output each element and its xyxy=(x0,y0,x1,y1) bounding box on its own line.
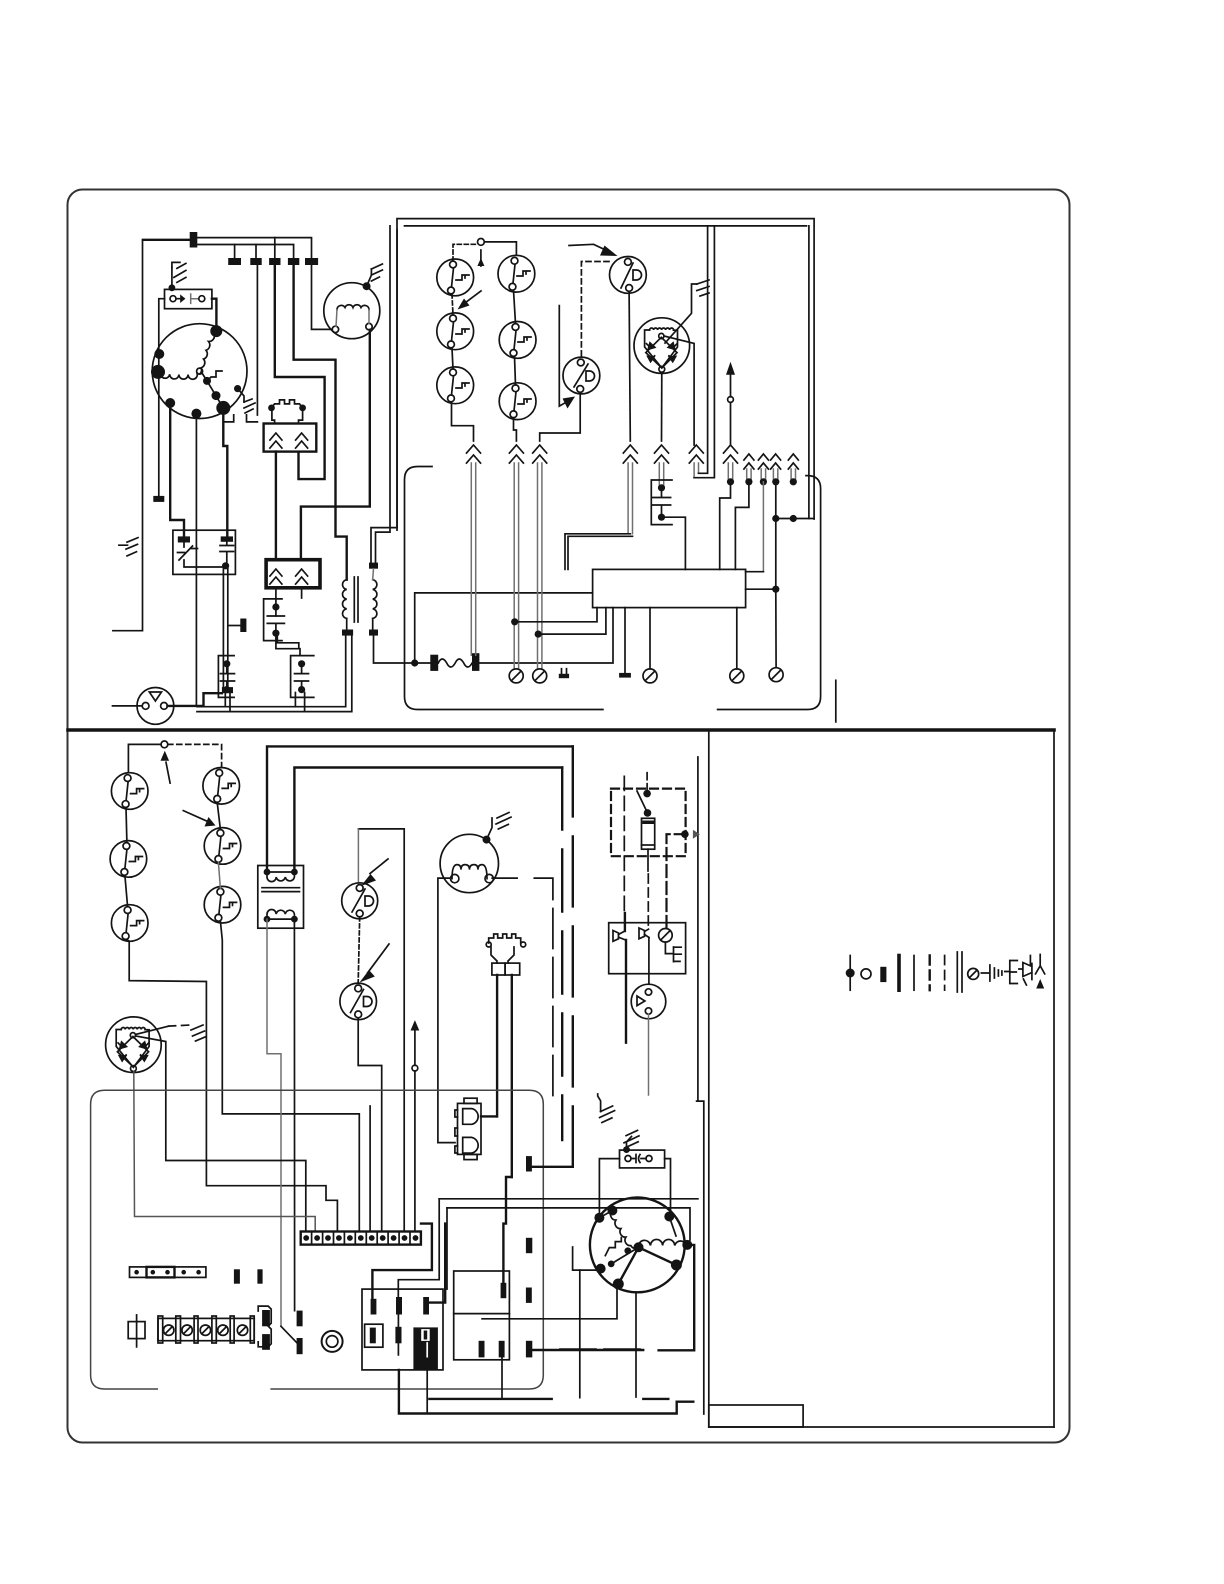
wire inducer loop xyxy=(659,1245,695,1350)
wire RBX2 out xyxy=(482,1288,617,1319)
K2 arrow out xyxy=(685,830,704,839)
screw terminal ST1 xyxy=(509,669,523,683)
FB1 inner link xyxy=(184,560,226,567)
M3 switch xyxy=(605,1238,621,1256)
limit switch LS8 xyxy=(110,841,147,878)
terminal bar TB13 xyxy=(257,1269,262,1283)
arrow up A1 xyxy=(477,258,484,268)
terminal bar TB15 xyxy=(297,1338,303,1354)
wire TB20 to dash bus xyxy=(532,1166,572,1168)
field chevron FC1 xyxy=(467,445,481,463)
outer enclosure border xyxy=(68,190,1070,1443)
relay box RBX2 xyxy=(454,1271,510,1360)
fuse FU2 xyxy=(128,1322,145,1339)
RBX2 divider xyxy=(454,1313,510,1315)
field chevron FC6 xyxy=(689,445,703,463)
compartment box line 2 xyxy=(447,1208,690,1240)
RBX1 black connector xyxy=(413,1327,438,1370)
bottom box right edge xyxy=(697,1101,704,1414)
legend break symbol xyxy=(1036,955,1045,974)
blower motor M2 body xyxy=(440,834,498,892)
C3 bottom dot xyxy=(223,686,230,693)
field chevron FC8 xyxy=(744,454,754,469)
bottom thick bus xyxy=(399,1370,693,1414)
limit switch LS2 xyxy=(437,313,474,350)
thermal link symbol xyxy=(272,400,303,408)
screw terminal ST4 xyxy=(730,669,744,683)
TR2 secondary winding xyxy=(267,909,294,919)
wire M1 lead C xyxy=(223,408,227,537)
RBX1 sub box xyxy=(365,1324,383,1347)
flame rollout plug FS1 xyxy=(137,688,174,725)
BR1 bar top xyxy=(262,1310,270,1326)
field chevron FC2 xyxy=(509,445,523,463)
C1 top dot xyxy=(272,603,279,610)
K2 switch blade xyxy=(637,791,648,813)
pressure switch PS2 xyxy=(563,357,600,394)
motor line right dash xyxy=(534,878,553,1100)
P2 square left xyxy=(492,963,505,975)
wire bus line 2 xyxy=(197,245,293,261)
compartment drop 2 xyxy=(446,1208,448,1289)
C1 plates xyxy=(267,616,284,623)
terminal bar TB19 xyxy=(501,1283,507,1298)
junction dot J2 xyxy=(222,562,229,569)
filter box FB1 xyxy=(173,530,236,574)
wire RBX1 bar2 stem xyxy=(397,1312,399,1355)
splice bar SP1 xyxy=(190,232,198,248)
wire HSI1 to chevron xyxy=(664,336,694,445)
bottom dash seg 1 xyxy=(429,1398,551,1400)
relay dashed box K2 xyxy=(611,789,686,857)
arrow diag A7 xyxy=(205,817,216,827)
M3 rim dots xyxy=(594,1213,604,1223)
wire fuse riser xyxy=(415,593,593,663)
M2 terminal right xyxy=(485,874,493,882)
bracket mark BRK2 xyxy=(247,415,258,422)
C1 lead top xyxy=(275,588,277,616)
M1 terminal dot bottom1 xyxy=(165,398,175,408)
M1 terminal dot bottom2 xyxy=(191,409,201,419)
transformer TR1 primary jog xyxy=(336,507,347,580)
rounded rect R2 xyxy=(91,1090,544,1389)
C1 lead bottom second xyxy=(277,635,299,648)
wire board stub 2 xyxy=(649,608,651,669)
C4 bottom dot xyxy=(658,514,665,521)
K1 ground xyxy=(665,942,681,962)
wire inner edge right xyxy=(808,226,810,519)
wire bus tap 2 xyxy=(255,245,257,261)
M1 terminal dot left1 xyxy=(154,349,164,359)
wire C2 bar drop left xyxy=(294,693,296,707)
big box outer corner xyxy=(267,746,573,872)
C3 plates xyxy=(221,664,235,690)
plug box PB1 xyxy=(264,424,317,452)
TR2 primary winding xyxy=(267,872,294,882)
legend panel bottom border xyxy=(709,1426,1054,1428)
K1 contact 1 xyxy=(613,931,619,942)
junction dot J1 xyxy=(169,284,176,291)
M1 winding aux xyxy=(160,373,197,379)
U-turn wire FC6 xyxy=(694,226,714,478)
C3 top dot xyxy=(223,660,230,667)
bracket BR1 xyxy=(258,1306,271,1347)
wire bus line 1 xyxy=(197,238,311,260)
TS1 dots xyxy=(303,1235,418,1241)
node circle N1 xyxy=(478,239,485,246)
door switch contact right xyxy=(199,296,205,302)
hsi circle HSI2 xyxy=(106,1017,162,1073)
wire LS1-LS2 link xyxy=(452,294,453,315)
K2 igniter lead dashed xyxy=(647,874,649,927)
U-turn wire FC6 inner xyxy=(699,226,708,473)
FB1 breaker symbol xyxy=(178,543,198,561)
capacitor C1 bracket xyxy=(264,599,282,641)
BR1 bar bottom xyxy=(262,1334,270,1350)
legend thick line xyxy=(897,956,901,991)
wire PS2 drop xyxy=(540,392,581,441)
PS3 arrow xyxy=(361,874,376,886)
arrow flame A3 xyxy=(600,246,618,257)
TR2 secondary dots xyxy=(264,916,271,923)
GND9 lead xyxy=(598,1094,601,1112)
wire GND2 lead xyxy=(171,267,173,287)
wire TB18 out xyxy=(532,1349,643,1351)
wire TR1 to fuse xyxy=(374,636,415,663)
wire board to J11 xyxy=(746,588,776,590)
node circle N4 xyxy=(412,1065,418,1071)
wire TB10 leads xyxy=(562,669,567,674)
wire bus tap 1 xyxy=(234,245,236,261)
twin-D bottom tab xyxy=(464,1154,477,1159)
wire RBX1 drop xyxy=(426,1371,428,1413)
RBX2 bar 1 xyxy=(479,1341,485,1358)
M2 winding xyxy=(452,865,487,879)
ground GND9 xyxy=(600,1106,615,1123)
junction dot J4 xyxy=(727,478,734,485)
wire run down double left xyxy=(222,566,224,687)
wire TB5 to M4 xyxy=(312,265,333,329)
wire FS1 left stub xyxy=(113,705,143,707)
wire LS4-LS5 link xyxy=(514,290,516,323)
ground GND1 xyxy=(119,538,138,556)
thermal link dot right xyxy=(299,405,306,412)
C2 bottom dot xyxy=(298,686,305,693)
node circle N3 xyxy=(161,741,168,748)
P2 body xyxy=(491,947,514,963)
wire PB2 right down xyxy=(301,588,303,598)
section divider line xyxy=(68,728,1054,732)
pressure switch feed wire xyxy=(358,829,404,1232)
M3 center dot xyxy=(634,1242,644,1252)
M4 lead right inner xyxy=(368,310,370,324)
separator tick mark xyxy=(835,680,837,722)
terminal bar TB20 xyxy=(526,1156,532,1171)
ignition box outer top xyxy=(397,219,814,530)
wire left pair jog A xyxy=(376,226,391,563)
FB1 terminal bar right xyxy=(221,536,233,541)
motor line right xyxy=(492,877,517,879)
M1 centrifugal switch xyxy=(202,371,222,381)
big box inner right dashed xyxy=(561,768,563,1141)
wire FS1 right lead xyxy=(167,693,222,706)
M1 rim dot right xyxy=(234,385,241,392)
wire LS5-LS6 link xyxy=(515,356,516,385)
RBX1 connector window xyxy=(421,1329,430,1341)
TR1 secondary top bar xyxy=(369,563,378,569)
twin-D top tab xyxy=(464,1098,477,1103)
FS1 key triangle xyxy=(149,692,161,701)
wire board stub 1 xyxy=(624,608,626,673)
rounded rect R1 left xyxy=(405,467,603,710)
K2 igniter band2 xyxy=(642,844,655,846)
dashed lead above LS1 xyxy=(453,244,478,261)
ground GND5 xyxy=(697,280,709,296)
wire C2 bar drop right xyxy=(304,693,306,712)
wire dot J12 xyxy=(511,618,518,625)
arrow up A6 xyxy=(161,751,170,763)
ground GND2 xyxy=(172,262,186,282)
ground GND8 xyxy=(624,1130,639,1149)
wire N4 drop xyxy=(414,1071,416,1232)
screw block SB1 body xyxy=(158,1318,254,1340)
screw terminal ST2 xyxy=(533,669,547,683)
M1 terminal dot bottom3 xyxy=(216,401,230,415)
pressure switch PS3 xyxy=(342,883,378,919)
ground GND6 xyxy=(496,813,511,830)
ground GND7 xyxy=(191,1025,205,1041)
wire LS8-LS9 link xyxy=(125,875,128,906)
P2 pin circles xyxy=(486,942,491,947)
wire link to plug right xyxy=(299,408,303,424)
legend double line xyxy=(957,952,962,992)
hot surface igniter HSI1 xyxy=(634,318,690,374)
ignition box inner top xyxy=(405,225,807,227)
fuse FU1 bar right xyxy=(472,653,479,671)
C1 bottom dot xyxy=(272,630,279,637)
wire RBX1 bar3 up xyxy=(429,1224,445,1303)
capacitor C4 bracket xyxy=(651,480,672,525)
M1 switch dot xyxy=(203,377,211,385)
P2 square right xyxy=(505,963,520,975)
wire FS2 drop xyxy=(648,1014,650,1095)
RBX1 bar 3 xyxy=(423,1297,429,1315)
SB2 top dot xyxy=(623,1146,630,1153)
tap connector T1 xyxy=(240,619,246,633)
M2 top dot xyxy=(483,836,491,844)
wire FC4 route lower xyxy=(568,536,633,569)
flame sensor FS2 xyxy=(631,984,666,1019)
terminal bar TB16 xyxy=(526,1238,532,1253)
HSI2 ground link solid xyxy=(136,1026,169,1034)
junction dot J7 xyxy=(772,478,779,485)
RBX1 sub bar xyxy=(370,1328,376,1344)
heavy wire to TB19 xyxy=(503,1177,511,1283)
door switch arrow xyxy=(176,296,184,301)
arrow up A5 xyxy=(726,362,735,378)
limit switch LS10 xyxy=(203,768,240,805)
K2 switch dot 1 xyxy=(643,790,651,798)
wire J5 to board xyxy=(735,482,749,570)
TR1 secondary bottom lead xyxy=(372,619,374,630)
TR1 secondary top lead xyxy=(372,569,375,580)
wire HSI2 right terminal xyxy=(136,1036,306,1232)
PB2 chevron right xyxy=(296,569,308,584)
limit switch LS4 xyxy=(498,255,535,292)
K2 switch dot 2 xyxy=(644,809,652,817)
plug connector PC1 outer xyxy=(130,1267,206,1278)
legend bar symbol xyxy=(880,967,886,982)
legend earth ground xyxy=(1005,961,1018,984)
RBX1 bar 2 xyxy=(396,1297,402,1315)
wire fuse to board xyxy=(479,608,613,663)
terminal bar TB18 xyxy=(526,1341,532,1358)
pressure switch PS1 xyxy=(610,257,647,294)
TS1 cells xyxy=(312,1232,410,1245)
dashed N3 right xyxy=(168,744,222,767)
wire L1 drop xyxy=(113,240,143,631)
wire FC4 route xyxy=(565,534,630,570)
FB1 capacitor xyxy=(220,542,234,566)
blower motor M1 body xyxy=(152,324,247,419)
terminal bar TB10 xyxy=(559,674,569,678)
wire J4 to board xyxy=(720,482,731,570)
P2 lead left xyxy=(496,975,498,1116)
big box outer right dashed xyxy=(572,746,574,1166)
twin-D connector body xyxy=(458,1103,482,1154)
ground GND4 xyxy=(371,264,382,281)
wire bottom run upper xyxy=(197,636,346,707)
M1 blade dot xyxy=(212,391,221,400)
PB1 chevron right xyxy=(296,433,308,448)
M4 lead left inner xyxy=(336,310,337,327)
legend chassis ground xyxy=(981,965,1002,981)
PC1 dots xyxy=(134,1270,201,1275)
ground GND3 xyxy=(244,399,255,413)
legend dashed thin xyxy=(944,956,946,991)
M4 terminal left xyxy=(332,326,338,332)
screw terminal ST3 xyxy=(643,669,657,683)
C2 plates xyxy=(295,664,309,690)
transformer TR1 primary lead xyxy=(294,265,336,507)
wire board stub 3 xyxy=(736,608,738,669)
junction dot J9 xyxy=(772,515,779,522)
terminal bar TB8 xyxy=(222,687,233,693)
wire left pair jog B xyxy=(371,230,397,563)
K2 switch stub xyxy=(646,773,648,794)
wire J7 chain xyxy=(775,482,777,589)
bottom box right inner xyxy=(697,757,699,1101)
wire M1 lead A xyxy=(170,403,184,536)
compartment drop 1 xyxy=(398,1199,439,1298)
wire M3 bottom drop xyxy=(635,1292,637,1397)
TR2 primary dots xyxy=(264,869,271,876)
K1 sense drop xyxy=(648,938,650,985)
M1 winding main xyxy=(200,334,215,374)
wire left hook 3 xyxy=(579,1270,581,1398)
tap connector stem xyxy=(228,625,240,627)
junction dot J3 xyxy=(411,659,418,666)
TR1 secondary winding xyxy=(373,580,377,619)
RBX2 bar 2 xyxy=(499,1341,505,1358)
M3 spokes xyxy=(599,1211,676,1285)
field chevron FC10 xyxy=(771,454,781,469)
limit switch LS1 xyxy=(437,259,474,296)
twin-D D1 xyxy=(463,1109,478,1125)
limit switch LS7 xyxy=(111,773,148,810)
capacitor C2 bracket xyxy=(291,656,314,698)
SB1 screws xyxy=(164,1325,248,1335)
twin-D D2 xyxy=(463,1137,478,1153)
door switch box SW1 xyxy=(165,289,212,308)
wire PS1 drop xyxy=(629,291,630,441)
legend panel left border xyxy=(708,732,710,1428)
HSI2 ground link dashed xyxy=(169,1025,191,1026)
RBX1 white conductor xyxy=(426,1342,428,1357)
legend screw symbol xyxy=(968,968,979,979)
M4 top dot xyxy=(363,282,371,290)
wire D1 out xyxy=(481,1115,497,1117)
wire LS7-LS8 link xyxy=(125,808,128,843)
arrow into PS2 A4 xyxy=(563,397,576,409)
TR1 primary winding xyxy=(342,580,346,619)
wire bottom run lower xyxy=(197,636,352,712)
legend junction symbol xyxy=(849,956,851,991)
K1 thick drop xyxy=(625,940,627,1043)
PS3 feed gray xyxy=(357,829,359,883)
legend node symbol xyxy=(861,969,871,979)
twin-D left tabs xyxy=(455,1110,458,1153)
wire left hook 1 xyxy=(573,1247,602,1270)
K2 igniter body xyxy=(642,818,655,849)
field chevron FC5 xyxy=(655,445,669,463)
junction dot J10 xyxy=(790,515,797,522)
wire J12 to board xyxy=(515,608,597,622)
field chevron FC11 xyxy=(788,454,798,469)
K2 right branch xyxy=(667,834,685,928)
inducer motor M3 body xyxy=(590,1198,685,1293)
receptacle box PB2 xyxy=(266,560,320,588)
ground GND6 lead xyxy=(487,818,493,840)
C4 top dot xyxy=(658,484,665,491)
wire M4 right drop xyxy=(301,330,370,560)
enclosure wire via plug xyxy=(275,265,325,479)
junction dot J5 xyxy=(745,478,752,485)
switch box SB2 xyxy=(620,1150,665,1168)
M1 terminal dot top xyxy=(210,325,222,337)
legend splice symbol xyxy=(1019,956,1032,986)
limit switch LS6 xyxy=(499,383,536,420)
K2 igniter lead xyxy=(647,849,649,871)
limit switch LS9 xyxy=(111,905,148,942)
dashed lead PS1 xyxy=(581,262,609,357)
FS1 pin left xyxy=(142,703,149,710)
M4 terminal right xyxy=(366,323,372,329)
inducer motor M4 body xyxy=(324,283,380,339)
control board CB1 xyxy=(593,569,746,607)
K2 dashed vert line xyxy=(623,776,625,912)
compartment box line 1 xyxy=(439,1198,698,1200)
big box inner corner xyxy=(294,768,562,873)
screw terminal ST5 xyxy=(769,668,783,682)
bottom dash seg 2 xyxy=(643,1398,668,1400)
limit switch LS11 xyxy=(204,828,241,865)
relay contact box K1 xyxy=(609,923,686,974)
wire LS3 drop xyxy=(452,402,474,441)
wire dot J13 xyxy=(535,631,542,638)
wire LS2-LS3 link xyxy=(452,348,453,369)
door switch contact gap xyxy=(191,294,199,303)
